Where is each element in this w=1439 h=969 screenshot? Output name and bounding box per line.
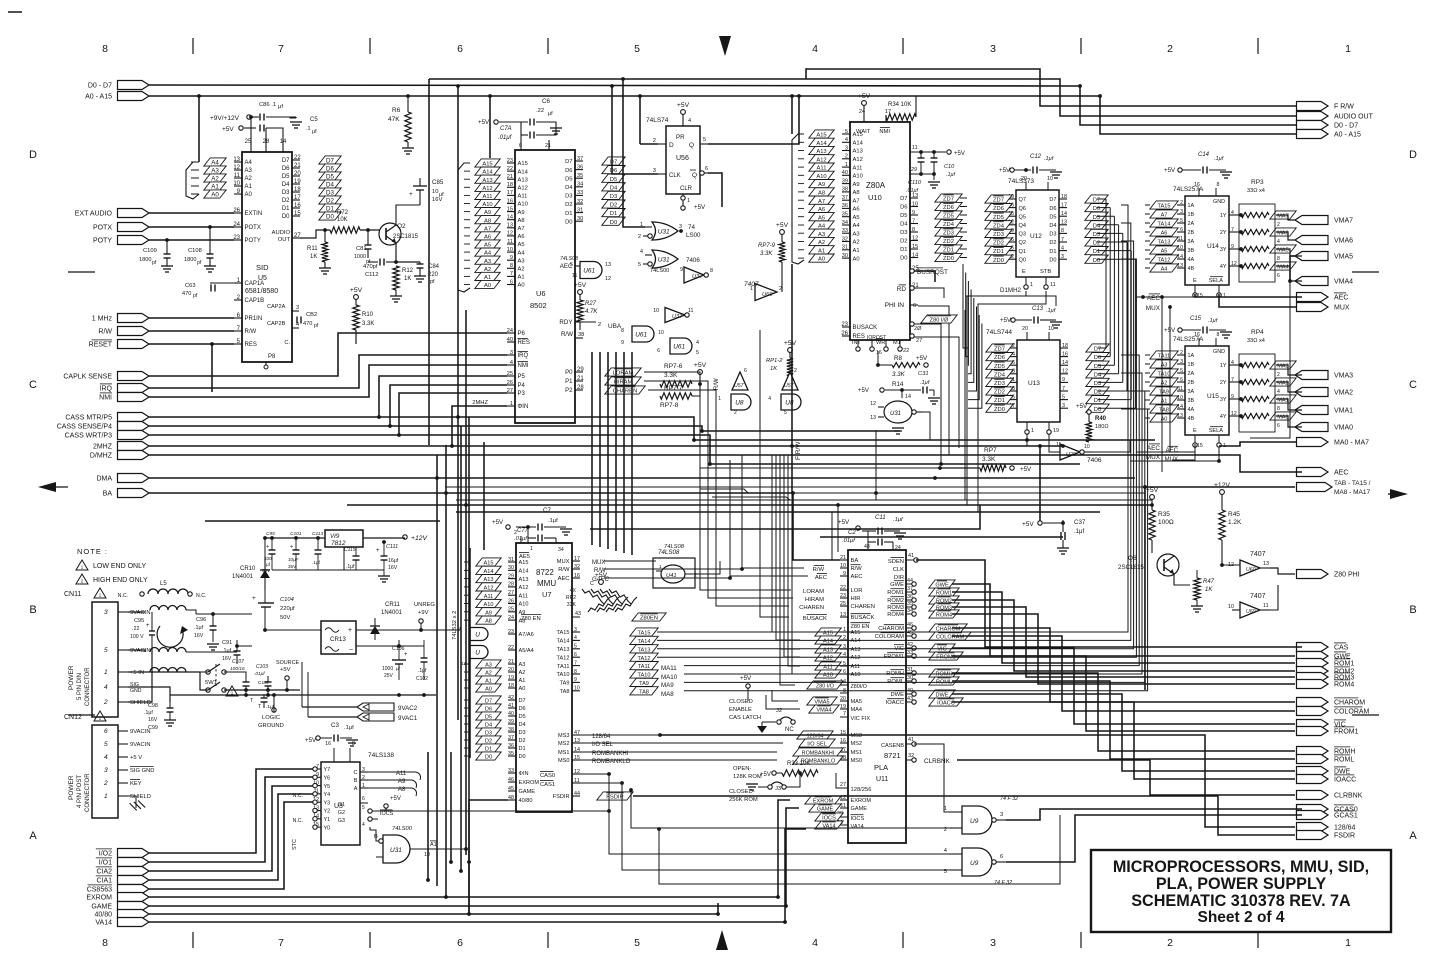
svg-text:A0: A0 (245, 192, 253, 198)
svg-text:+5V: +5V (954, 151, 965, 157)
svg-text:35: 35 (508, 751, 514, 757)
wire u13 b1 (1026, 434, 1028, 446)
svg-text:23: 23 (508, 629, 514, 635)
junction q6 1 (1220, 563, 1224, 567)
wire cap bottom rail (272, 569, 384, 571)
svg-text:11: 11 (507, 239, 513, 245)
wire C86 gnd (266, 117, 296, 118)
junction x469 (467, 912, 471, 916)
svg-text:A5/A4: A5/A4 (519, 648, 534, 654)
Z80 BUSRQST flag (910, 269, 914, 273)
gate U29 7406 (1060, 444, 1080, 460)
svg-text:Z80A: Z80A (866, 181, 886, 190)
svg-text:EXTIN: EXTIN (245, 211, 263, 217)
wire d bus r h2 (1097, 215, 1114, 217)
wire 7407a out (1270, 568, 1295, 574)
svg-text:4: 4 (812, 43, 818, 55)
ruler dash right (1352, 271, 1379, 273)
U3 B wire (370, 827, 379, 841)
svg-text:10μF: 10μF (288, 557, 299, 562)
wire CASS cont3 (399, 435, 1080, 464)
wire 12864 out (660, 735, 1295, 827)
U6 addr bus spine (458, 163, 470, 292)
U6 pin P5 (507, 375, 515, 377)
node EXT AUDIO (left connector) (118, 209, 150, 218)
svg-text:1N4001: 1N4001 (232, 574, 254, 580)
wire zd h4 (960, 231, 967, 233)
wire spine sid (198, 96, 200, 162)
svg-text:D1MH2: D1MH2 (1000, 287, 1022, 294)
wire bridge out right (356, 629, 460, 631)
U13 left flags (986, 344, 1013, 352)
svg-text:+5V: +5V (1020, 466, 1032, 473)
junction x20 (716, 912, 720, 916)
resistor RP3.1 (1241, 212, 1269, 217)
svg-text:MS1: MS1 (851, 750, 863, 756)
op-amp U14 74LS257A body (1185, 196, 1229, 285)
svg-text:Q6: Q6 (1128, 555, 1137, 562)
svg-text:16: 16 (840, 738, 846, 744)
svg-text:C6: C6 (542, 98, 550, 105)
junction c96 (211, 612, 215, 616)
svg-text:C: C (353, 770, 357, 776)
svg-text:22: 22 (903, 348, 909, 354)
wire AEC arrow (1195, 294, 1302, 297)
svg-text:A6: A6 (818, 207, 825, 213)
junction aec ext (728, 576, 732, 580)
svg-text:CIA2: CIA2 (96, 869, 112, 876)
svg-text:MA8: MA8 (661, 691, 674, 698)
ruler tick bottom (192, 932, 194, 948)
svg-text:3: 3 (990, 937, 996, 949)
svg-text:33Ω x4: 33Ω x4 (1247, 338, 1265, 344)
svg-text:31: 31 (842, 245, 848, 251)
svg-text:2MHZ: 2MHZ (472, 400, 488, 406)
svg-text:VIC FIX: VIC FIX (851, 716, 871, 722)
Z80 bottom pins (857, 340, 859, 348)
svg-text:CLRBNK: CLRBNK (924, 758, 951, 765)
svg-text:15: 15 (507, 206, 513, 212)
svg-text:6: 6 (574, 652, 577, 658)
svg-text:CLOSED: CLOSED (729, 699, 753, 705)
svg-text:A10: A10 (851, 672, 861, 678)
svg-text:A1: A1 (853, 248, 860, 254)
svg-text:A3: A3 (853, 231, 860, 237)
svg-text:ROML: ROML (1334, 757, 1354, 764)
svg-text:IORQST: IORQST (867, 335, 886, 341)
junction top3 (456, 84, 460, 88)
svg-text:46: 46 (508, 777, 514, 783)
U11 128/256 pin (840, 787, 848, 789)
svg-text:D0: D0 (519, 754, 526, 760)
svg-text:A12: A12 (518, 186, 528, 192)
wire MA0MA7 arrow (1219, 442, 1297, 446)
svg-text:EXROM: EXROM (851, 798, 872, 804)
svg-text:CASS SENSE/P4: CASS SENSE/P4 (57, 424, 112, 431)
svg-text:CIA1: CIA1 (96, 878, 112, 885)
svg-text:U60: U60 (762, 292, 773, 298)
wire +9V to pin25 (250, 117, 252, 145)
junction top5 (610, 84, 614, 88)
svg-text:D3: D3 (610, 194, 617, 200)
svg-text:E: E (1193, 278, 1197, 284)
svg-text:VMA7: VMA7 (1334, 218, 1353, 225)
U6 port flags (605, 368, 641, 376)
wire zd v3 (968, 290, 971, 374)
svg-text:9: 9 (510, 255, 513, 261)
U7 bottom-left pins (508, 772, 516, 774)
wire d bus r h21 (1098, 356, 1110, 358)
svg-text:3Y: 3Y (1220, 397, 1227, 403)
wire MA3-VMA3 (1276, 365, 1302, 375)
svg-text:U: U (475, 650, 480, 657)
node Z80 PHI (right connector) (1297, 570, 1329, 579)
svg-text:+: + (348, 627, 352, 634)
wire IOACC out (952, 702, 1295, 779)
svg-text:1: 1 (1031, 428, 1034, 434)
U12 right flags (1085, 195, 1108, 203)
svg-text:A12: A12 (851, 655, 861, 661)
svg-text:NOTE :: NOTE : (77, 547, 108, 556)
svg-text:5: 5 (634, 43, 640, 55)
svg-text:A15: A15 (484, 561, 494, 567)
svg-text:CAS LATCH: CAS LATCH (729, 715, 761, 721)
svg-text:NMI: NMI (879, 129, 890, 135)
svg-text:8: 8 (574, 669, 577, 675)
svg-text:pf: pf (430, 279, 435, 285)
svg-text:TA15: TA15 (1158, 204, 1171, 210)
wire BA (149, 493, 840, 560)
svg-text:4: 4 (104, 684, 108, 691)
svg-text:R72: R72 (337, 210, 349, 216)
U6 address flags (475, 159, 500, 167)
svg-text:N.C.: N.C. (196, 593, 206, 599)
svg-text:A14: A14 (484, 569, 494, 575)
wire vert x452b (451, 406, 453, 446)
wire U14 y3 (1237, 248, 1241, 250)
svg-text:16: 16 (1062, 351, 1068, 357)
top center arrow (719, 36, 731, 56)
svg-text:3: 3 (679, 224, 682, 230)
svg-text:26: 26 (507, 380, 513, 386)
svg-text:8: 8 (1217, 182, 1220, 188)
junction sw1 (244, 688, 248, 692)
power +5V Z80 (862, 101, 867, 106)
node GAME (left connector) (118, 902, 150, 911)
svg-text:74 F 32: 74 F 32 (1000, 796, 1018, 802)
svg-text:1: 1 (1345, 43, 1351, 55)
svg-text:Q1: Q1 (1019, 249, 1026, 255)
wire POTX (149, 226, 234, 228)
svg-text:POWER: POWER (68, 665, 75, 690)
svg-text:R/W: R/W (813, 567, 825, 573)
wire mmu mux ext (604, 560, 656, 562)
svg-text:SHIELD: SHIELD (130, 794, 151, 800)
svg-text:23: 23 (840, 593, 846, 599)
svg-text:33: 33 (907, 650, 913, 656)
svg-text:DWE: DWE (890, 692, 904, 698)
U11 pin8 (840, 692, 848, 694)
node AEC (right connector) (1297, 293, 1329, 302)
wire c14 gnd pin (1215, 170, 1217, 188)
op-amp U3 74LS138 body (321, 762, 360, 845)
wire cn11 p5 (128, 650, 145, 652)
U11 pin BUSACK (840, 616, 848, 618)
svg-text:10: 10 (507, 247, 513, 253)
svg-text:3: 3 (990, 43, 996, 55)
gate 74LS32a (470, 628, 488, 641)
svg-text:R6: R6 (392, 107, 401, 114)
junction u31d (464, 847, 468, 851)
svg-text:A0: A0 (518, 283, 525, 289)
svg-text:D4: D4 (1093, 223, 1101, 229)
transistor Q6 2SC1815 (1157, 554, 1179, 576)
gate U57b inv-up (782, 372, 798, 390)
junction (249, 115, 253, 119)
svg-text:GROUND: GROUND (258, 723, 284, 729)
node ROM1 (right connector) (1297, 659, 1329, 668)
wire z80 spine down (791, 264, 793, 493)
svg-text:22: 22 (507, 166, 513, 172)
svg-text:TA9: TA9 (560, 681, 570, 687)
svg-text:C5: C5 (310, 117, 318, 123)
svg-text:5: 5 (703, 137, 706, 143)
svg-text:TAB - TA15 /: TAB - TA15 / (1334, 480, 1371, 487)
note triangle 2 (76, 574, 88, 584)
svg-text:+: + (404, 652, 408, 658)
svg-text:+5V: +5V (760, 772, 771, 778)
svg-text:CR11: CR11 (385, 602, 401, 608)
node FSDIR (right connector) (1297, 831, 1329, 840)
wire dbus v5 (631, 352, 633, 555)
wire AEC left ext (1136, 296, 1195, 298)
wire vert 1170 (1169, 307, 1171, 452)
svg-text:8722: 8722 (536, 568, 554, 577)
svg-text:28: 28 (508, 582, 514, 588)
svg-text:A7/A6: A7/A6 (519, 632, 534, 638)
svg-text:D6: D6 (282, 166, 290, 172)
wire blconn1 (149, 777, 313, 862)
wire mmu rw ext (604, 568, 742, 570)
svg-text:CAP2A: CAP2A (267, 304, 286, 310)
svg-text:C: C (1409, 379, 1417, 391)
U5 cap2 pins (292, 310, 299, 312)
node VMA2 (right connector) (1295, 388, 1328, 397)
svg-text:C91: C91 (222, 640, 232, 646)
ground J2 (762, 721, 776, 723)
svg-text:D1: D1 (610, 211, 617, 217)
svg-text:2: 2 (598, 322, 601, 328)
node CLRBNK (right connector) (1297, 791, 1329, 800)
svg-text:.1μf: .1μf (1046, 308, 1057, 314)
svg-text:R/W: R/W (851, 566, 863, 572)
svg-text:pf: pf (197, 260, 202, 266)
wire pla a5 (792, 455, 800, 674)
svg-text:CASS MTR/P5: CASS MTR/P5 (65, 415, 112, 422)
node POTY (left connector) (118, 236, 150, 245)
wire cn11 shield (128, 648, 152, 702)
svg-text:A2: A2 (518, 267, 525, 273)
svg-text:C7: C7 (543, 507, 551, 514)
svg-text:MA11: MA11 (661, 665, 677, 672)
wire vr9 rail top (265, 537, 325, 539)
svg-text:C111: C111 (386, 544, 398, 550)
wire r72 out (360, 229, 382, 231)
wire ms rows ext2 (574, 751, 777, 753)
svg-text:Q: Q (689, 142, 694, 149)
svg-text:C37: C37 (1074, 519, 1086, 526)
svg-text:COLORAM: COLORAM (1334, 709, 1370, 716)
wire rail575 (152, 589, 265, 591)
svg-text:+9V/+12V: +9V/+12V (210, 115, 240, 122)
junction r33 (798, 771, 802, 775)
U7 D-flags (476, 696, 501, 704)
svg-text:IOCS: IOCS (380, 811, 394, 817)
svg-text:Y5: Y5 (324, 784, 331, 790)
svg-text:ZD5: ZD5 (994, 364, 1005, 370)
wire 9vac1v (307, 672, 309, 717)
wire EXROM line (149, 800, 790, 897)
svg-text:+5V: +5V (305, 737, 317, 744)
svg-text:ZD1: ZD1 (943, 248, 954, 254)
svg-text:POTX: POTX (93, 225, 112, 232)
svg-text:36: 36 (907, 594, 913, 600)
svg-text:RP3: RP3 (1251, 179, 1264, 186)
wire staircase L1 (149, 333, 507, 376)
svg-text:A14: A14 (518, 169, 529, 175)
svg-text:A0 - A15: A0 - A15 (85, 94, 112, 101)
wire c104 to bridge rail (265, 629, 321, 631)
wire MA7-VMA7 (1276, 215, 1295, 220)
wire mid h521 (205, 520, 440, 522)
wire cas0 to u9b (580, 774, 950, 854)
svg-text:pf: pf (152, 260, 157, 266)
Z80 phi stub (910, 304, 918, 306)
svg-text:3: 3 (104, 767, 108, 774)
svg-text:MS2: MS2 (851, 741, 863, 747)
wire zd v6 (968, 315, 979, 400)
U11 MS flags (797, 731, 833, 739)
node VMA1 (right connector) (1295, 406, 1328, 415)
ground U6 cap (550, 127, 562, 129)
svg-text:U61: U61 (635, 332, 647, 339)
wire zd v2 (967, 281, 969, 365)
node 9VAC2 (357, 703, 394, 711)
wire rd wire (914, 288, 944, 298)
wire ta bus 5 (684, 373, 1142, 674)
svg-text:J3: J3 (775, 786, 781, 792)
wire zd h3 (960, 223, 967, 225)
op-amp U56 74LS74 flip-flop (666, 126, 700, 194)
svg-text:3: 3 (653, 168, 656, 174)
svg-text:7: 7 (1061, 237, 1064, 243)
svg-text:4X: 4X (570, 588, 577, 594)
transformer secondary1 (150, 648, 186, 653)
svg-text:POWER: POWER (68, 775, 75, 800)
resistor RP4.2 (1241, 379, 1269, 384)
svg-text:27: 27 (840, 782, 846, 788)
wire charen (648, 390, 789, 606)
svg-text:U13: U13 (1028, 380, 1040, 387)
svg-text:A2: A2 (245, 176, 253, 182)
wire d bus r h25 (1098, 390, 1127, 392)
resistor RP3.2 (1241, 229, 1269, 234)
svg-text:P5: P5 (518, 374, 526, 380)
svg-text:13: 13 (1061, 220, 1067, 226)
wire VA14 line (149, 829, 806, 922)
svg-text:2: 2 (1167, 43, 1173, 55)
junction x3 (874, 491, 878, 495)
wire CLRBNK out (957, 760, 1295, 795)
ruler tick bottom (1257, 932, 1259, 948)
wire 7406 out (1092, 440, 1130, 452)
svg-text:FROM1: FROM1 (1334, 729, 1359, 736)
svg-text:41: 41 (908, 737, 914, 743)
wire d bus r v2 (1113, 216, 1115, 365)
svg-text:2SC1815: 2SC1815 (393, 234, 419, 240)
svg-text:Z80 EN: Z80 EN (851, 624, 870, 630)
wire vert x640b (639, 96, 641, 144)
svg-text:D0: D0 (610, 220, 617, 226)
svg-text:Y0: Y0 (324, 825, 331, 831)
node DMA (left connector) (118, 474, 150, 483)
node 1 MHz (left connector) (118, 314, 150, 323)
svg-text:C99: C99 (148, 725, 158, 731)
svg-text:D0: D0 (1049, 257, 1056, 263)
svg-text:μf: μf (278, 104, 283, 110)
svg-text:BUSACK: BUSACK (851, 615, 875, 621)
svg-text:Q5: Q5 (1019, 214, 1026, 220)
wire zd h1 (960, 206, 967, 208)
U6 rw stub (575, 337, 583, 339)
svg-text:D4: D4 (282, 182, 290, 188)
wire vert x612 (612, 86, 658, 174)
ruler dash left (68, 271, 95, 273)
svg-text:1: 1 (845, 162, 848, 168)
svg-text:220μf: 220μf (280, 606, 295, 612)
wire pla top bundle1 (837, 505, 839, 552)
svg-text:U: U (475, 632, 480, 639)
svg-text:OPEN-: OPEN- (733, 766, 751, 772)
svg-text:TA14: TA14 (638, 639, 651, 645)
svg-text:100 V: 100 V (130, 634, 144, 640)
gate U8b (781, 394, 801, 410)
svg-text:G1: G1 (338, 802, 345, 808)
svg-text:1B: 1B (1188, 362, 1195, 368)
wire GWE out (952, 584, 1295, 656)
svg-text:+5V: +5V (916, 355, 928, 362)
U5 data flags (319, 156, 341, 164)
svg-text:7: 7 (510, 271, 513, 277)
svg-text:11: 11 (1050, 282, 1056, 288)
svg-text:D1: D1 (900, 247, 907, 253)
svg-text:2: 2 (638, 234, 641, 240)
wire r33 pin27 (836, 773, 848, 788)
svg-text:37: 37 (907, 586, 913, 592)
svg-text:NMI: NMI (99, 395, 112, 402)
svg-text:C109: C109 (143, 248, 157, 254)
svg-text:VMA3: VMA3 (1334, 373, 1353, 380)
svg-text:40/80: 40/80 (94, 912, 112, 919)
svg-text:I/O2: I/O2 (99, 851, 112, 858)
svg-text:15: 15 (1197, 293, 1203, 299)
svg-text:16: 16 (1194, 182, 1200, 188)
wire R10 to R/W (355, 331, 357, 344)
wire c3 pin16 (333, 738, 335, 748)
svg-text:R40: R40 (1095, 416, 1107, 422)
svg-text:12: 12 (574, 769, 580, 775)
svg-text:4.7K: 4.7K (585, 309, 598, 315)
